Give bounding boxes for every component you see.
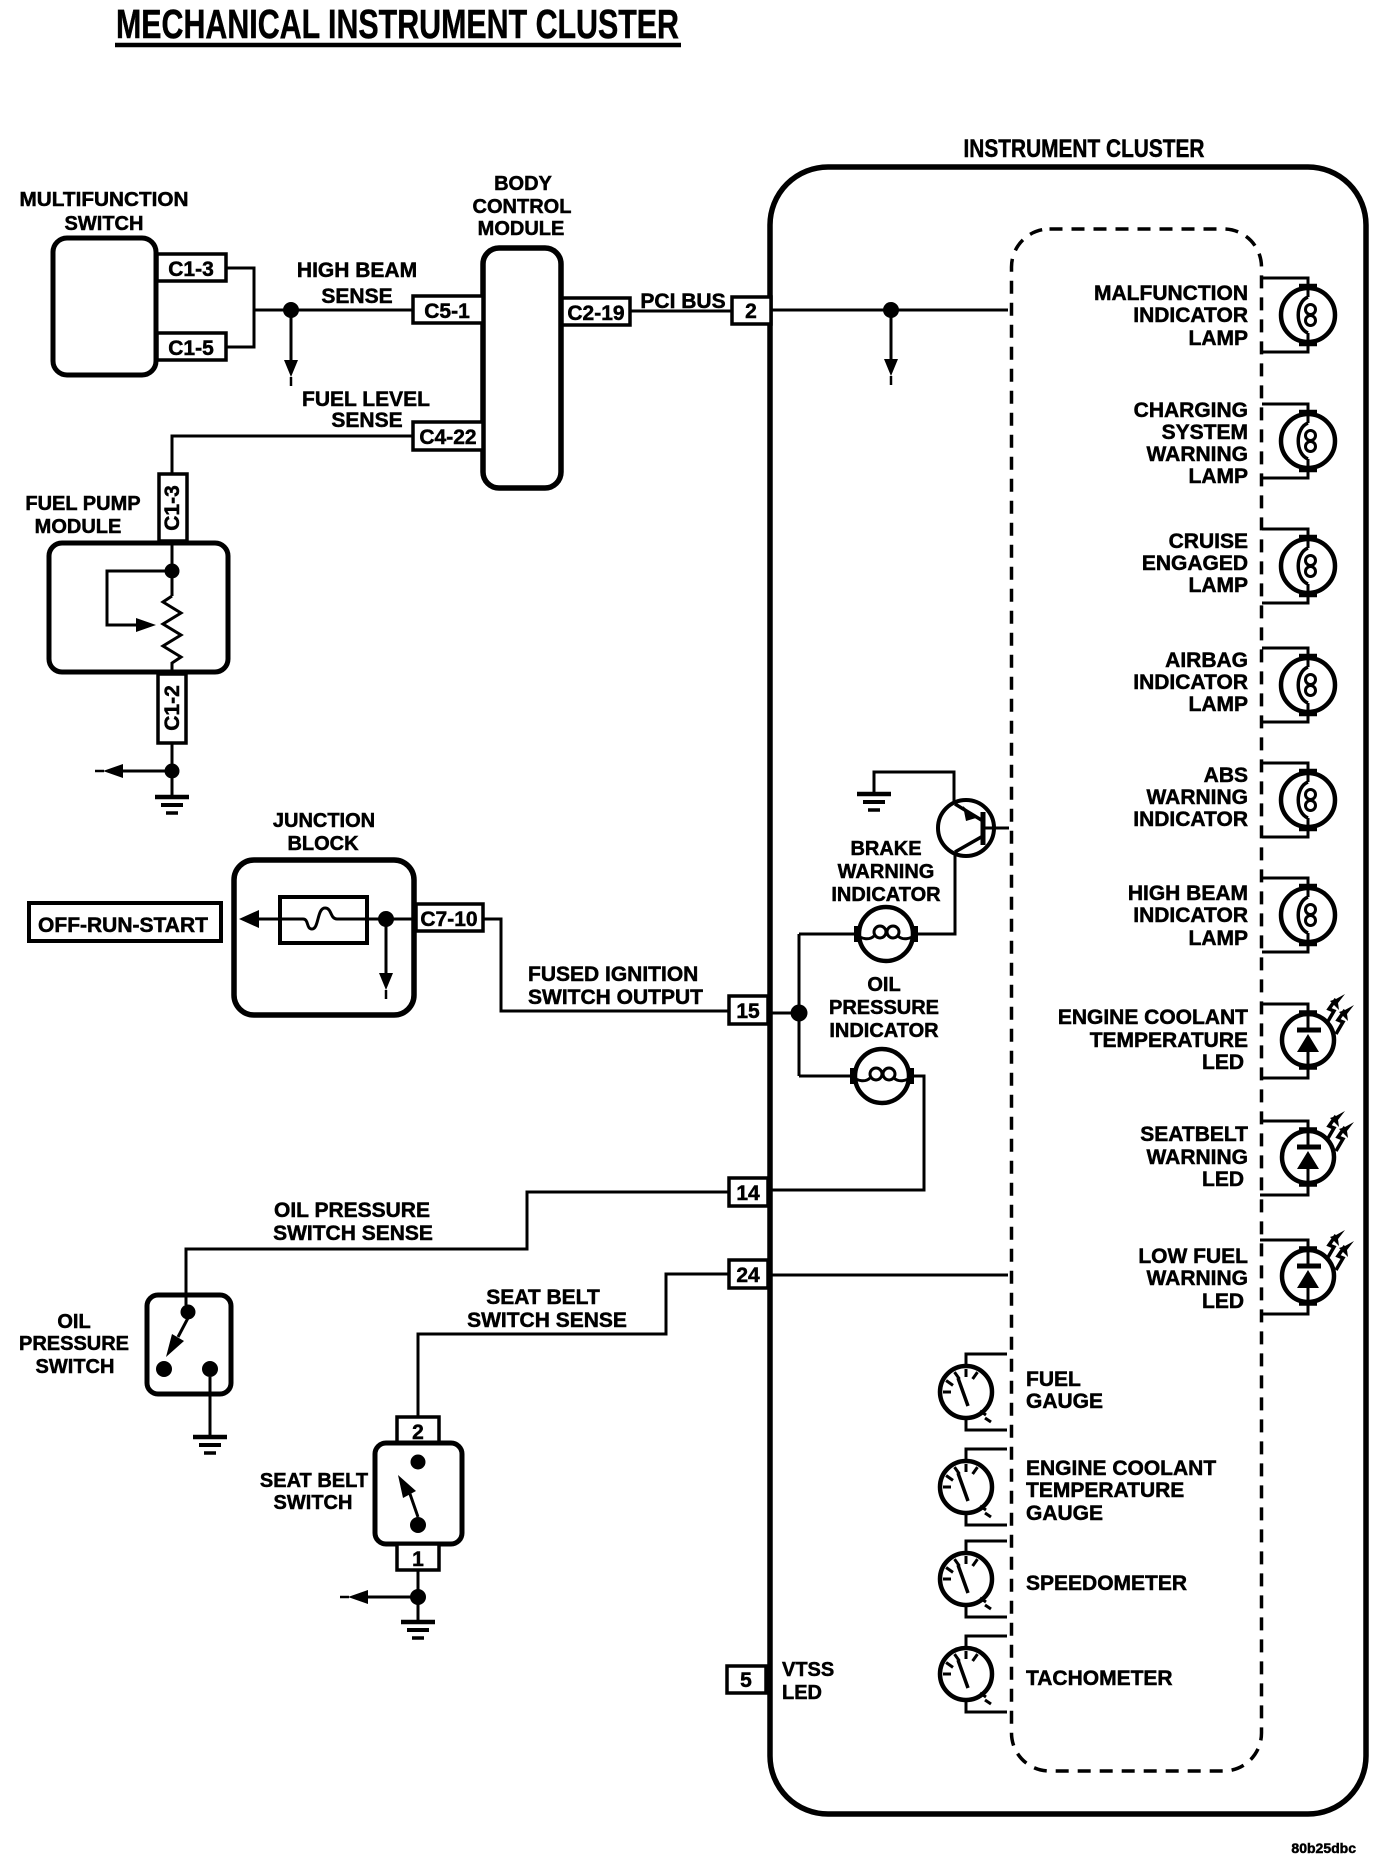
svg-text:SYSTEM: SYSTEM xyxy=(1162,421,1248,444)
multifunction switch body xyxy=(53,238,156,375)
svg-text:SWITCH: SWITCH xyxy=(36,1356,115,1378)
lamp high beam indicator xyxy=(1262,878,1335,952)
wire pin 14 to oil pressure switch xyxy=(186,1192,729,1305)
seat belt switch pin 2 box xyxy=(397,1417,439,1443)
oil pressure switch body xyxy=(147,1295,231,1394)
svg-text:FUEL LEVEL: FUEL LEVEL xyxy=(302,388,430,411)
wire C1-3/C1-5 to junction xyxy=(226,268,413,347)
seat belt switch body xyxy=(375,1443,462,1544)
seat belt switch pin 1 box xyxy=(397,1544,439,1570)
svg-text:WARNING: WARNING xyxy=(1147,1146,1249,1169)
svg-text:SENSE: SENSE xyxy=(331,409,402,432)
wiper arm of sender xyxy=(107,571,172,625)
arrow left inside junction block xyxy=(239,910,259,928)
arrow left from seat belt ground junction xyxy=(366,1596,418,1599)
connector C1-3 (fuel pump, vertical) xyxy=(159,474,187,541)
svg-text:MALFUNCTION: MALFUNCTION xyxy=(1094,282,1248,305)
svg-text:CRUISE: CRUISE xyxy=(1169,530,1248,553)
svg-text:OFF-RUN-START: OFF-RUN-START xyxy=(38,914,208,937)
lamp airbag indicator xyxy=(1262,648,1335,722)
svg-text:INSTRUMENT CLUSTER: INSTRUMENT CLUSTER xyxy=(964,135,1205,163)
svg-text:HIGH BEAM: HIGH BEAM xyxy=(297,259,417,282)
arrow down inside junction block xyxy=(385,919,388,975)
svg-text:FUSED IGNITION: FUSED IGNITION xyxy=(528,963,698,986)
ground (oil pressure switch) xyxy=(193,1437,227,1453)
svg-text:INDICATOR: INDICATOR xyxy=(1133,304,1248,327)
svg-text:GAUGE: GAUGE xyxy=(1026,1390,1103,1413)
wire pin 15 to indicators xyxy=(768,934,856,1076)
lamp malfunction indicator xyxy=(1262,278,1335,352)
svg-text:BRAKE: BRAKE xyxy=(850,838,921,860)
svg-text:14: 14 xyxy=(736,1182,760,1205)
led low fuel warning xyxy=(1260,1230,1354,1314)
svg-text:5: 5 xyxy=(740,1669,752,1692)
led seatbelt warning xyxy=(1260,1111,1354,1195)
svg-text:VTSS: VTSS xyxy=(782,1659,834,1681)
body control module body xyxy=(483,248,561,488)
wire seat belt switch to ground xyxy=(417,1570,420,1620)
lamp charging system warning xyxy=(1262,404,1335,478)
svg-text:C1-5: C1-5 xyxy=(168,337,214,360)
svg-text:LAMP: LAMP xyxy=(1189,465,1249,488)
gauge fuel xyxy=(940,1354,1007,1430)
svg-text:SWITCH SENSE: SWITCH SENSE xyxy=(273,1222,433,1245)
wire C4-22 to fuel pump module xyxy=(172,436,413,474)
svg-text:ENGINE COOLANT: ENGINE COOLANT xyxy=(1026,1457,1216,1480)
svg-text:SWITCH SENSE: SWITCH SENSE xyxy=(467,1309,627,1332)
svg-text:80b25dbc: 80b25dbc xyxy=(1291,1840,1356,1856)
svg-text:C1-2: C1-2 xyxy=(161,685,184,731)
svg-text:AIRBAG: AIRBAG xyxy=(1165,649,1248,672)
svg-text:LED: LED xyxy=(1202,1051,1244,1074)
wire C7-10 to pin 15 xyxy=(483,919,729,1011)
svg-text:SENSE: SENSE xyxy=(321,285,392,308)
svg-text:LOW FUEL: LOW FUEL xyxy=(1138,1245,1248,1268)
ground (fuel pump) xyxy=(155,797,189,813)
svg-text:C5-1: C5-1 xyxy=(424,300,470,323)
wire fuse to C7-10 xyxy=(257,918,416,921)
svg-text:C1-3: C1-3 xyxy=(168,258,214,281)
off-run-start box xyxy=(29,903,221,941)
svg-text:FUEL: FUEL xyxy=(1026,1368,1081,1391)
junction block body xyxy=(234,860,414,1015)
wire brake coil to transistor xyxy=(874,772,955,934)
svg-text:GAUGE: GAUGE xyxy=(1026,1502,1103,1525)
svg-text:24: 24 xyxy=(736,1264,760,1287)
lamp cruise engaged xyxy=(1262,529,1335,603)
svg-text:ENGAGED: ENGAGED xyxy=(1142,552,1248,575)
instrument cluster boundary xyxy=(770,167,1366,1814)
node high beam sense junction xyxy=(283,302,299,318)
seat belt switch contacts xyxy=(411,1455,426,1470)
wire pin 24 into cluster xyxy=(768,1274,1008,1277)
wire oil coil to pin 14 xyxy=(768,1076,924,1190)
fuel pump module body xyxy=(49,543,228,672)
transistor xyxy=(938,800,1009,856)
svg-text:LAMP: LAMP xyxy=(1189,327,1249,350)
connector C1-2 (fuel pump, vertical) xyxy=(158,674,186,743)
svg-text:PRESSURE: PRESSURE xyxy=(829,997,939,1019)
svg-text:OIL PRESSURE: OIL PRESSURE xyxy=(274,1199,430,1222)
oil pressure switch blade xyxy=(178,1318,188,1337)
svg-text:BODY: BODY xyxy=(494,173,552,195)
svg-text:BLOCK: BLOCK xyxy=(287,833,359,855)
svg-text:INDICATOR: INDICATOR xyxy=(831,884,941,906)
pin 15 box xyxy=(729,996,768,1024)
arrow down from PCI bus junction xyxy=(890,310,893,361)
wire C1-2 to ground xyxy=(171,743,174,795)
svg-text:SEATBELT: SEATBELT xyxy=(1140,1123,1248,1146)
wire oil pressure switch to ground xyxy=(209,1377,212,1436)
node fuel pump tap xyxy=(165,564,180,579)
svg-text:15: 15 xyxy=(736,1000,760,1023)
connector C1-5 (multifunction switch) xyxy=(157,333,226,360)
svg-text:WARNING: WARNING xyxy=(1147,786,1249,809)
svg-text:FUEL PUMP: FUEL PUMP xyxy=(25,493,140,515)
svg-text:C7-10: C7-10 xyxy=(420,908,477,931)
svg-text:ABS: ABS xyxy=(1204,764,1248,787)
svg-text:LAMP: LAMP xyxy=(1189,574,1249,597)
svg-text:TEMPERATURE: TEMPERATURE xyxy=(1090,1029,1248,1052)
svg-text:WARNING: WARNING xyxy=(1147,1267,1249,1290)
node junction block tap xyxy=(378,911,394,927)
wire C2-19 to pin 2 xyxy=(630,310,732,313)
svg-text:SPEEDOMETER: SPEEDOMETER xyxy=(1026,1572,1187,1595)
wire pin 24 to seat belt switch xyxy=(418,1274,729,1417)
connector C7-10 (junction block) xyxy=(416,904,483,931)
ground (transistor) xyxy=(857,794,891,810)
gauge engine coolant temperature xyxy=(940,1449,1007,1525)
connector C2-19 (BCM) xyxy=(562,298,630,325)
pin 5 box xyxy=(727,1666,766,1693)
svg-text:MECHANICAL INSTRUMENT CLUSTER: MECHANICAL INSTRUMENT CLUSTER xyxy=(116,1,679,47)
instrument cluster inner dashed boundary xyxy=(1012,229,1262,1771)
svg-text:ENGINE COOLANT: ENGINE COOLANT xyxy=(1058,1006,1248,1029)
connector C5-1 (BCM) xyxy=(413,296,483,323)
svg-text:LAMP: LAMP xyxy=(1189,693,1249,716)
node PCI bus junction xyxy=(883,302,899,318)
node seat belt ground junction xyxy=(410,1589,426,1605)
node fuel pump ground junction xyxy=(165,764,180,779)
svg-text:INDICATOR: INDICATOR xyxy=(1133,808,1248,831)
svg-text:INDICATOR: INDICATOR xyxy=(1133,671,1248,694)
pin 14 box xyxy=(729,1178,768,1206)
svg-text:CHARGING: CHARGING xyxy=(1134,399,1248,422)
connector C4-22 (BCM) xyxy=(413,422,483,450)
pin 24 box xyxy=(729,1260,768,1288)
svg-text:LED: LED xyxy=(782,1682,822,1704)
svg-text:OIL: OIL xyxy=(867,974,900,996)
svg-text:INDICATOR: INDICATOR xyxy=(829,1020,939,1042)
svg-text:INDICATOR: INDICATOR xyxy=(1133,904,1248,927)
svg-text:HIGH BEAM: HIGH BEAM xyxy=(1128,882,1248,905)
svg-text:LED: LED xyxy=(1202,1290,1244,1313)
svg-text:C2-19: C2-19 xyxy=(567,302,624,325)
fuse element xyxy=(280,908,367,929)
svg-text:CONTROL: CONTROL xyxy=(473,196,572,218)
svg-text:C1-3: C1-3 xyxy=(161,485,184,531)
oil pressure indicator coil xyxy=(852,1049,912,1103)
svg-text:WARNING: WARNING xyxy=(1147,443,1249,466)
arrow down from high beam junction xyxy=(290,310,293,362)
wire into resistor xyxy=(171,541,174,596)
svg-text:SEAT BELT: SEAT BELT xyxy=(260,1470,368,1492)
svg-text:C4-22: C4-22 xyxy=(419,426,476,449)
svg-text:SEAT BELT: SEAT BELT xyxy=(486,1286,600,1309)
connector C1-3 (multifunction switch) xyxy=(157,254,226,281)
gauge tachometer xyxy=(940,1636,1007,1712)
svg-text:PRESSURE: PRESSURE xyxy=(19,1333,129,1355)
svg-text:WARNING: WARNING xyxy=(838,861,935,883)
svg-text:MULTIFUNCTION: MULTIFUNCTION xyxy=(20,189,189,211)
arrow left from fuel pump ground junction xyxy=(121,770,172,773)
oil pressure switch contacts xyxy=(181,1305,196,1320)
svg-text:MODULE: MODULE xyxy=(478,218,565,240)
svg-text:LAMP: LAMP xyxy=(1189,927,1249,950)
wire pin 2 into cluster (PCI bus) xyxy=(771,309,1008,312)
fuse box xyxy=(280,897,367,943)
node pin 15 junction xyxy=(791,1005,808,1022)
brake warning indicator coil xyxy=(856,907,916,961)
resistor (fuel level sender) xyxy=(163,596,181,676)
svg-text:2: 2 xyxy=(745,300,757,323)
svg-text:1: 1 xyxy=(412,1548,424,1571)
svg-text:SWITCH: SWITCH xyxy=(274,1492,353,1514)
seat belt switch blade xyxy=(410,1494,418,1517)
svg-text:MODULE: MODULE xyxy=(35,516,122,538)
led engine coolant temperature xyxy=(1260,994,1354,1078)
svg-text:SWITCH OUTPUT: SWITCH OUTPUT xyxy=(528,986,703,1009)
svg-text:TEMPERATURE: TEMPERATURE xyxy=(1026,1479,1184,1502)
pin 2 box xyxy=(732,297,771,324)
gauge speedometer xyxy=(940,1541,1007,1617)
svg-text:JUNCTION: JUNCTION xyxy=(273,810,375,832)
lamp ABS warning indicator xyxy=(1262,763,1335,837)
svg-text:LED: LED xyxy=(1202,1168,1244,1191)
svg-text:TACHOMETER: TACHOMETER xyxy=(1026,1667,1173,1690)
svg-text:OIL: OIL xyxy=(57,1311,90,1333)
svg-text:SWITCH: SWITCH xyxy=(65,213,144,235)
ground (seat belt switch) xyxy=(401,1622,435,1638)
